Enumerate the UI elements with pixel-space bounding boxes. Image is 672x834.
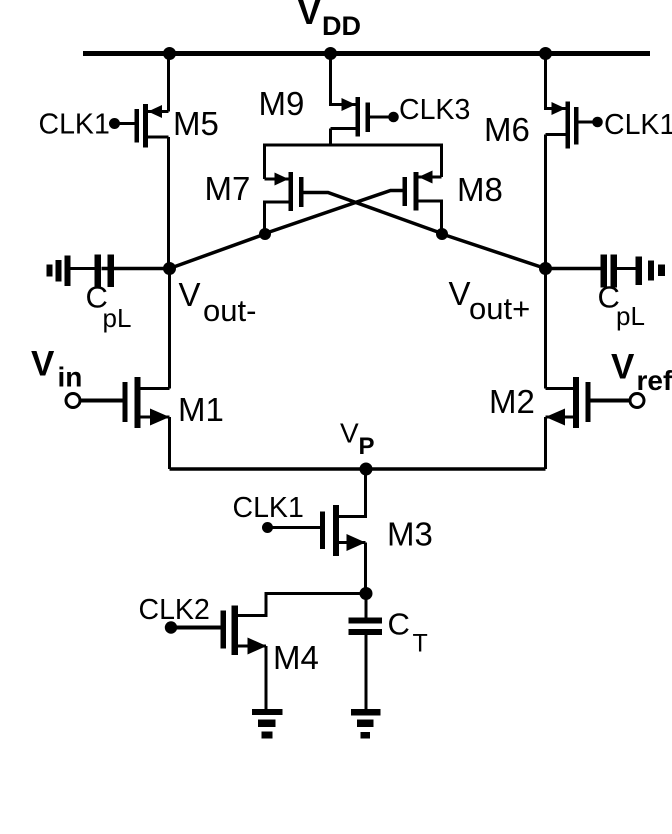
wire M2 drain to Vout+ xyxy=(544,269,547,389)
node M7 drain junction xyxy=(259,228,271,240)
wire node to M4 drain xyxy=(238,594,366,616)
capacitor CpL right xyxy=(546,255,636,288)
node M3 source / CT xyxy=(360,587,373,600)
transistor M7 xyxy=(265,172,304,234)
svg-text:in: in xyxy=(58,362,83,393)
wire CLK1 to M3 gate xyxy=(268,526,321,529)
svg-text:DD: DD xyxy=(322,11,361,41)
transistor M5 xyxy=(135,104,169,148)
label CT xyxy=(388,607,428,658)
capacitor CT xyxy=(349,594,383,712)
label CpL left xyxy=(86,280,132,334)
node Vout+ xyxy=(539,262,552,275)
svg-text:pL: pL xyxy=(616,301,645,331)
wire M6 source down to Vout+ xyxy=(544,135,547,269)
svg-text:out+: out+ xyxy=(469,291,530,326)
node junction VDD-M5 xyxy=(163,47,176,60)
wire left node to Vout- xyxy=(170,234,266,269)
svg-text:M7: M7 xyxy=(205,170,251,207)
wire CLK1 to M5 gate xyxy=(115,122,135,125)
node junction VDD-M9 xyxy=(324,47,337,60)
svg-text:CLK3: CLK3 xyxy=(399,94,470,126)
terminal dot CLK2-M4 xyxy=(165,621,177,633)
svg-text:M9: M9 xyxy=(259,85,305,122)
wire VP rail xyxy=(170,467,546,471)
node M8 drain junction xyxy=(436,228,448,240)
svg-text:CLK1: CLK1 xyxy=(39,109,110,141)
svg-text:M2: M2 xyxy=(489,383,535,420)
wire M5 source down to Vout- node xyxy=(167,137,170,269)
label Vout+ xyxy=(449,275,531,326)
svg-text:V: V xyxy=(179,276,201,313)
svg-text:M5: M5 xyxy=(173,105,219,142)
terminal Vref xyxy=(630,394,644,408)
wire M7-M8 common top rail xyxy=(265,145,442,179)
wire M1 source down xyxy=(168,417,171,469)
svg-text:M8: M8 xyxy=(457,171,503,208)
wire Vin to M1 gate xyxy=(80,399,123,403)
terminal Vin xyxy=(66,394,80,408)
wire M8 gate cross-couple to left node xyxy=(265,191,403,234)
label CpL right xyxy=(598,280,645,332)
svg-text:M1: M1 xyxy=(178,391,224,428)
svg-text:T: T xyxy=(413,630,428,658)
svg-text:CLK1: CLK1 xyxy=(233,492,304,524)
node Vout- xyxy=(163,262,176,275)
transistor M1 xyxy=(123,377,170,428)
svg-text:CLK1: CLK1 xyxy=(604,109,672,141)
wire M5 drain to VDD xyxy=(167,54,170,112)
wire CLK2 to M4 gate xyxy=(171,626,221,630)
svg-text:CLK2: CLK2 xyxy=(139,594,210,626)
net VDD label xyxy=(298,0,362,41)
wire M6 drain from VDD xyxy=(546,54,566,109)
transistor M4 xyxy=(221,606,267,656)
svg-text:V: V xyxy=(31,345,55,384)
wire M4 source to ground xyxy=(265,646,268,711)
svg-text:V: V xyxy=(340,418,359,449)
terminal dot CLK3-M9 xyxy=(388,112,399,123)
svg-text:C: C xyxy=(388,607,410,642)
wire M2 source down xyxy=(544,417,547,469)
label VP xyxy=(340,418,375,461)
node VP xyxy=(360,463,373,476)
terminal dot CLK1-M5 xyxy=(109,118,120,129)
capacitor CpL left xyxy=(71,255,170,288)
svg-text:P: P xyxy=(359,433,375,460)
node junction VDD-M6 xyxy=(539,47,552,60)
svg-text:out-: out- xyxy=(203,293,256,328)
svg-text:M4: M4 xyxy=(273,639,319,676)
ground M4 xyxy=(252,709,283,739)
wire VDD rail xyxy=(83,51,650,56)
label Vref xyxy=(611,348,672,397)
ac ground left xyxy=(47,256,71,287)
wire M1 drain to Vout- xyxy=(168,269,171,389)
transistor M3 xyxy=(320,505,366,556)
wire M9 gate lead xyxy=(370,116,392,119)
transistor M8 xyxy=(403,171,442,235)
svg-text:V: V xyxy=(611,348,635,387)
terminal dot CLK1-M6 xyxy=(592,117,603,128)
svg-text:M6: M6 xyxy=(484,111,530,148)
wire right node to Vout+ xyxy=(442,234,546,269)
label Vin xyxy=(31,345,82,393)
wire M2 gate to Vref xyxy=(591,399,631,403)
svg-text:V: V xyxy=(449,275,471,312)
wire M3 drain from VP xyxy=(336,469,366,517)
wire M6 gate lead xyxy=(579,121,597,124)
terminal dot CLK1-M3 xyxy=(262,522,273,533)
svg-text:ref: ref xyxy=(637,365,672,396)
svg-text:V: V xyxy=(298,0,322,32)
transistor M6 xyxy=(546,102,579,149)
wire M3 source down to CT node xyxy=(364,543,367,594)
wire M9 drain from VDD xyxy=(331,54,356,105)
ac ground right xyxy=(636,257,666,286)
label Vout- xyxy=(179,276,257,328)
ground CT xyxy=(351,709,381,739)
svg-text:pL: pL xyxy=(103,303,132,333)
transistor M2 xyxy=(546,377,591,428)
wire M7 gate cross-couple to right node xyxy=(304,193,443,234)
transistor M9 xyxy=(331,97,371,145)
svg-text:M3: M3 xyxy=(387,516,433,553)
